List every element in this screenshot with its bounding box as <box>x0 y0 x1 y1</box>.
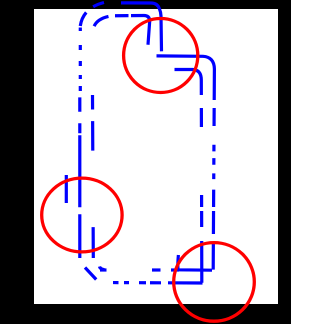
wire inner bottom-left corner arc <box>100 267 105 270</box>
wire inner right corner from horizontal <box>175 70 202 81</box>
wire outer left vertical dashed <box>78 95 81 258</box>
wire inner bottom-left dash <box>100 268 107 271</box>
wire outer jog through top circle (solid) <box>151 3 162 51</box>
wire inner vertical in top circle <box>144 16 150 45</box>
wire inner bottom solid run <box>171 268 179 271</box>
wire inner bottom dash <box>152 268 161 271</box>
annotation circle top <box>124 19 198 93</box>
wire outer top edge <box>104 1 151 4</box>
wire inner bottom right solid <box>178 255 212 270</box>
wire outer bottom edge dashed <box>100 281 203 285</box>
wire outer right edge dashed <box>213 69 214 270</box>
annotation circle left <box>42 178 122 252</box>
wire extra left dash near circle <box>65 175 68 203</box>
black frame top bar <box>0 0 291 9</box>
black frame left bar <box>0 0 34 324</box>
wire inner right edge dashed <box>200 80 204 283</box>
black frame bottom bar <box>0 304 291 324</box>
wire outer left dotted top <box>79 28 82 96</box>
black frame right bar <box>278 0 291 324</box>
wire outer horizontal through top circle <box>157 56 215 69</box>
wire inner left vertical dashed <box>91 95 95 258</box>
annotation circle bottom-right <box>174 243 255 322</box>
wire inner top edge dashed <box>112 14 144 18</box>
wire outer bottom-left corner arc <box>85 268 96 280</box>
wire outer top-left corner arc <box>80 3 104 29</box>
wire inner top-left corner arc <box>93 16 112 32</box>
